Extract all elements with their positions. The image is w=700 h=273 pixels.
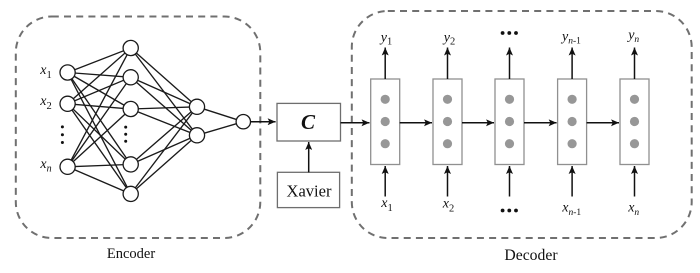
svg-text:x1: x1 xyxy=(39,63,51,81)
svg-text:xn: xn xyxy=(39,157,51,175)
svg-text:yn: yn xyxy=(626,28,639,45)
svg-text:xn: xn xyxy=(627,201,639,219)
svg-text:y2: y2 xyxy=(442,30,455,47)
svg-text:x2: x2 xyxy=(39,94,51,112)
svg-text:xn-1: xn-1 xyxy=(561,201,581,219)
svg-text:y1: y1 xyxy=(379,31,392,48)
svg-text:Encoder: Encoder xyxy=(107,246,155,262)
svg-text:x1: x1 xyxy=(380,196,392,214)
svg-text:x2: x2 xyxy=(442,197,454,215)
svg-text:C: C xyxy=(301,110,316,134)
svg-text:Xavier: Xavier xyxy=(287,182,332,201)
svg-text:yn-1: yn-1 xyxy=(560,29,581,46)
svg-text:Decoder: Decoder xyxy=(504,247,558,264)
